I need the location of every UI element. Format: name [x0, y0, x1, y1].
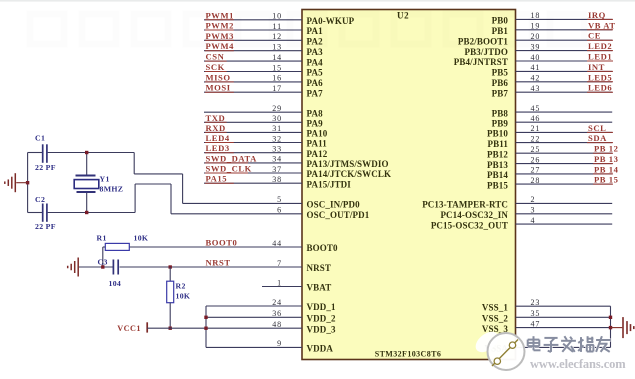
svg-text:RXD: RXD [206, 123, 226, 133]
svg-text:15: 15 [272, 63, 282, 72]
svg-text:PA7: PA7 [307, 88, 324, 98]
svg-text:PB6: PB6 [492, 78, 509, 88]
svg-text:MISO: MISO [206, 72, 231, 82]
svg-text:PA15/JTDI: PA15/JTDI [307, 179, 352, 189]
svg-text:VBAT: VBAT [307, 283, 332, 293]
svg-text:VDD_1: VDD_1 [307, 302, 336, 312]
svg-text:5: 5 [277, 195, 282, 204]
svg-text:PB4/JNTRST: PB4/JNTRST [454, 57, 508, 67]
svg-text:32: 32 [272, 134, 282, 143]
svg-text:BOOT0: BOOT0 [206, 238, 238, 248]
svg-text:16: 16 [272, 74, 282, 83]
svg-text:BOOT0: BOOT0 [307, 243, 338, 253]
svg-text:PB 13: PB 13 [594, 154, 618, 164]
svg-text:PB8: PB8 [492, 108, 509, 118]
svg-text:PB10: PB10 [487, 129, 508, 139]
svg-text:40: 40 [531, 53, 541, 62]
svg-text:R1: R1 [97, 234, 107, 243]
svg-text:4: 4 [531, 216, 536, 225]
svg-text:25: 25 [531, 145, 541, 154]
svg-text:PB12: PB12 [487, 149, 508, 159]
svg-text:LED5: LED5 [588, 72, 612, 82]
svg-text:38: 38 [272, 175, 282, 184]
svg-text:24: 24 [272, 298, 282, 307]
svg-text:VB AT: VB AT [588, 20, 616, 30]
svg-text:21: 21 [531, 124, 541, 133]
svg-text:PA8: PA8 [307, 108, 324, 118]
svg-text:8MHZ: 8MHZ [100, 185, 124, 194]
svg-text:37: 37 [272, 165, 282, 174]
svg-text:29: 29 [272, 104, 282, 113]
svg-text:PA12: PA12 [307, 149, 328, 159]
svg-text:PB13: PB13 [487, 160, 508, 170]
svg-text:MOSI: MOSI [206, 83, 231, 93]
svg-text:PA5: PA5 [307, 68, 324, 78]
svg-text:PB9: PB9 [492, 118, 509, 128]
svg-text:PB7: PB7 [492, 88, 509, 98]
svg-text:PA11: PA11 [307, 139, 328, 149]
svg-text:PB14: PB14 [487, 170, 508, 180]
svg-text:SCK: SCK [206, 62, 225, 72]
svg-text:C1: C1 [35, 134, 45, 143]
svg-text:36: 36 [272, 309, 282, 318]
svg-text:35: 35 [531, 309, 541, 318]
svg-text:C3: C3 [98, 257, 108, 266]
svg-text:10K: 10K [176, 291, 191, 300]
svg-text:LED3: LED3 [206, 143, 230, 153]
svg-text:104: 104 [109, 279, 122, 288]
svg-text:VDD_3: VDD_3 [307, 324, 336, 334]
svg-text:42: 42 [531, 74, 541, 83]
svg-text:VSS_2: VSS_2 [482, 314, 508, 324]
svg-text:30: 30 [272, 114, 282, 123]
svg-text:C2: C2 [35, 195, 45, 204]
svg-text:22: 22 [531, 134, 541, 143]
svg-text:PA14/JTCK/SWCLK: PA14/JTCK/SWCLK [307, 169, 392, 179]
svg-text:www.elecfans.com: www.elecfans.com [530, 357, 626, 371]
svg-text:LED2: LED2 [588, 41, 612, 51]
svg-text:PA15: PA15 [206, 174, 228, 184]
svg-text:14: 14 [272, 53, 282, 62]
svg-text:PA4: PA4 [307, 57, 324, 67]
svg-text:22 PF: 22 PF [35, 222, 56, 231]
svg-text:PA6: PA6 [307, 78, 324, 88]
svg-text:SWD_DATA: SWD_DATA [206, 153, 258, 163]
svg-text:LED1: LED1 [588, 52, 612, 62]
svg-text:R2: R2 [176, 281, 186, 290]
svg-text:PB 15: PB 15 [594, 175, 618, 185]
svg-text:47: 47 [531, 319, 541, 328]
svg-text:NRST: NRST [206, 258, 231, 268]
svg-text:3: 3 [531, 206, 536, 215]
svg-text:26: 26 [531, 155, 541, 164]
svg-text:VDDA: VDDA [307, 344, 334, 354]
svg-text:OSC_IN/PD0: OSC_IN/PD0 [307, 200, 361, 210]
svg-text:CE: CE [588, 31, 601, 41]
svg-text:SWD_CLK: SWD_CLK [206, 164, 252, 174]
svg-text:PB15: PB15 [487, 180, 508, 190]
svg-text:PB 12: PB 12 [594, 144, 618, 154]
svg-text:PA10: PA10 [307, 129, 328, 139]
svg-text:23: 23 [531, 298, 541, 307]
svg-text:7: 7 [277, 259, 282, 268]
svg-text:OSC_OUT/PD1: OSC_OUT/PD1 [307, 210, 370, 220]
svg-text:SCL: SCL [588, 123, 606, 133]
svg-text:PA9: PA9 [307, 119, 324, 129]
svg-text:41: 41 [531, 63, 541, 72]
svg-text:33: 33 [272, 145, 282, 154]
svg-text:Y1: Y1 [100, 174, 110, 183]
svg-text:22 PF: 22 PF [35, 163, 56, 172]
svg-text:IRQ: IRQ [588, 10, 606, 20]
svg-text:31: 31 [272, 124, 282, 133]
svg-text:PB5: PB5 [492, 68, 509, 78]
svg-text:VCC1: VCC1 [117, 324, 141, 333]
svg-text:46: 46 [531, 114, 541, 123]
svg-text:9: 9 [277, 339, 282, 348]
svg-text:SDA: SDA [588, 133, 607, 143]
svg-text:VSS_1: VSS_1 [482, 302, 508, 312]
svg-text:17: 17 [272, 84, 282, 93]
svg-text:PA3: PA3 [307, 47, 324, 57]
svg-text:LED6: LED6 [588, 83, 612, 93]
svg-text:27: 27 [531, 166, 541, 175]
svg-text:VDD_2: VDD_2 [307, 314, 336, 324]
svg-text:CSN: CSN [206, 52, 225, 62]
svg-text:1: 1 [277, 278, 282, 287]
svg-text:LED4: LED4 [206, 133, 230, 143]
svg-text:STM32F103C8T6: STM32F103C8T6 [375, 350, 442, 359]
svg-text:34: 34 [272, 155, 282, 164]
svg-text:28: 28 [531, 176, 541, 185]
svg-text:PA13/JTMS/SWDIO: PA13/JTMS/SWDIO [307, 159, 389, 169]
svg-text:2: 2 [531, 195, 536, 204]
svg-text:PB 14: PB 14 [594, 164, 619, 174]
svg-text:6: 6 [277, 206, 282, 215]
svg-text:NRST: NRST [307, 263, 332, 273]
svg-text:TXD: TXD [206, 113, 226, 123]
svg-text:44: 44 [272, 239, 282, 248]
svg-text:45: 45 [531, 104, 541, 113]
svg-text:INT: INT [588, 62, 605, 72]
svg-text:PC15-OSC32_OUT: PC15-OSC32_OUT [431, 220, 508, 230]
svg-text:PB11: PB11 [488, 139, 509, 149]
svg-text:PB3/JTDO: PB3/JTDO [465, 47, 508, 57]
svg-text:43: 43 [531, 84, 541, 93]
svg-text:PC13-TAMPER-RTC: PC13-TAMPER-RTC [422, 200, 508, 210]
svg-text:48: 48 [272, 320, 282, 329]
svg-text:10K: 10K [134, 234, 149, 243]
svg-text:PC14-OSC32_IN: PC14-OSC32_IN [440, 210, 508, 220]
